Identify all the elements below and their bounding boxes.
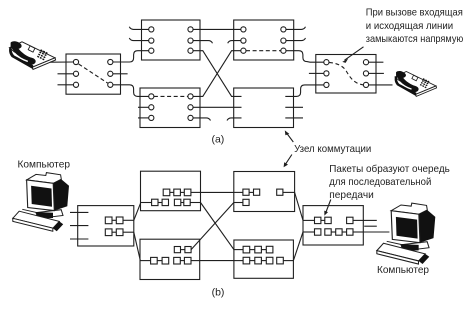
packet switch box M2b (top-right)	[234, 172, 295, 212]
svg-text:Компьютер: Компьютер	[18, 158, 71, 170]
svg-text:При вызове входящая: При вызове входящая	[366, 7, 463, 19]
phone front strip	[32, 58, 55, 70]
M2 left stub hook row2	[228, 41, 241, 44]
RB right stub row2	[369, 72, 384, 74]
M3 right stub hook row3	[193, 118, 210, 121]
trunk M1b row1 to M2b row1	[201, 191, 234, 193]
M2 circles	[241, 27, 246, 32]
keyboard right end black	[53, 221, 63, 231]
svg-text:для последовательной: для последовательной	[329, 176, 431, 188]
M2b row2 queue	[234, 202, 243, 204]
svg-text:и исходящая линии: и исходящая линии	[366, 20, 453, 32]
trunk diagonal M3b row1 to M2b row2	[191, 203, 234, 250]
LB left circles column	[73, 59, 78, 64]
M3b row1 queue	[174, 247, 180, 253]
phone base black	[9, 47, 33, 69]
svg-text:(b): (b)	[212, 286, 225, 298]
LBb row2 packets	[105, 229, 112, 236]
trunk diagonal M1b row2 to M4b row1	[201, 203, 234, 250]
M4b row2 queue	[234, 260, 243, 262]
M4 right tick row2	[285, 106, 303, 108]
trunk diagonal M2b to RBb row1	[295, 192, 303, 220]
annotation arrow (b) packets	[326, 200, 331, 213]
M1 right stub hook row2	[193, 41, 212, 44]
arrow to M2b (down)	[285, 155, 292, 165]
RBb row1 queue	[303, 219, 315, 221]
RB right stub row1	[369, 61, 384, 63]
LBb row1 packets	[105, 217, 112, 224]
RBb row2 queue	[303, 231, 315, 233]
LB closed crosspoint dashed	[79, 64, 108, 83]
phone handset	[11, 41, 36, 64]
M2 right stub hook row2	[286, 38, 306, 41]
packet box LBb (left)	[78, 206, 134, 246]
packet box RBb (right)	[303, 206, 363, 245]
M3b row2 queue	[140, 260, 151, 262]
svg-text:(a): (a)	[211, 133, 224, 145]
trunk M3b row2 to M4b row2	[200, 260, 234, 262]
keyboard front	[13, 218, 53, 231]
M3 left stub row2	[138, 106, 149, 108]
monitor right side black	[53, 179, 69, 210]
RBb output lines to computer C2	[363, 219, 377, 221]
M4 right tick row3	[285, 117, 303, 119]
svg-text:передачи: передачи	[329, 189, 374, 201]
svg-text:замыкаются напрямую: замыкаются напрямую	[366, 33, 464, 45]
M1 circles	[149, 27, 154, 32]
M2 right stub hook row1	[286, 27, 306, 30]
toll office box M2 (top-right)	[234, 20, 294, 60]
M1b row2 queue	[152, 199, 158, 205]
monitor stand black wedge	[36, 212, 53, 219]
toll office box M3 (bottom-left)	[140, 88, 200, 128]
toll office box M4 (bottom-right)	[234, 88, 294, 128]
RB closed crosspoint dashed S-curve	[329, 62, 363, 85]
wire phone1 to box LB row1	[50, 61, 73, 63]
wire RB row3 to phone2	[369, 84, 393, 86]
phone handset white gap	[14, 53, 28, 61]
pedestal left line	[22, 209, 36, 212]
M3 left stub row3	[138, 117, 149, 119]
telephone T1 (left)	[9, 41, 56, 69]
M1b row1 queue	[163, 189, 170, 196]
trunk diagonal M4b to RBb row2	[293, 232, 303, 261]
monitor top face	[27, 173, 62, 184]
phone body top face	[9, 42, 55, 67]
toll office box M1 (top-left)	[142, 20, 201, 60]
keyboard top	[13, 211, 60, 228]
trunk diagonal M3 row1 to M2 row3	[193, 51, 241, 97]
computer C1 ticks to LBb	[70, 211, 88, 213]
LB right stub row2	[113, 73, 128, 75]
LBb fan-out diagonals	[134, 203, 141, 220]
packet switch box M1b (top-left)	[141, 171, 201, 211]
computer C1 (left)	[13, 173, 69, 232]
RB right circles	[363, 60, 368, 65]
M3 circles	[149, 94, 154, 99]
M2b row1 queue	[234, 191, 243, 193]
wire LB row1 up to M1 row3	[113, 51, 149, 62]
screen black	[31, 186, 52, 207]
annotation arrow (a)	[345, 47, 364, 60]
wire M4 row1 up to RB row3	[285, 85, 324, 97]
wire LB row3 down to M3 row1	[113, 85, 149, 97]
LB left stub row3	[58, 84, 74, 86]
RB left stub row2	[309, 72, 324, 74]
trunk M1 row1 to M2 row1	[193, 28, 241, 30]
M3 closed crosspoint dashed row1	[154, 95, 188, 97]
packet switch box M3b (bottom-left)	[140, 239, 200, 279]
svg-text:Пакеты образуют очередь: Пакеты образуют очередь	[329, 163, 450, 175]
M1 left stub hook row1	[129, 27, 148, 30]
LB left stub row2	[58, 73, 74, 75]
trunk M3 row2 to M4 row2	[193, 106, 241, 108]
packet switch box M4b (bottom-right)	[234, 240, 294, 278]
computer C2 (right)	[377, 203, 435, 264]
phone cradle rect	[28, 46, 35, 52]
telephone T2 (right)	[395, 71, 437, 96]
switch box LB (left local office)	[66, 54, 121, 94]
pedestal	[36, 210, 63, 219]
M4 left tick row3 with hook	[227, 118, 242, 121]
trunk diagonal M1 row3 to M4	[193, 51, 241, 97]
arrow to M4 (up)	[286, 133, 293, 142]
wire M2 row3 down to RB row1	[286, 51, 324, 63]
phone keypad dots	[37, 49, 48, 60]
svg-text:Компьютер: Компьютер	[377, 264, 429, 276]
RB left circles	[324, 60, 329, 65]
svg-text:Узел коммутации: Узел коммутации	[294, 143, 371, 155]
monitor front frame	[27, 180, 55, 211]
LB right circles column	[108, 59, 113, 64]
M4b row1 queue	[234, 249, 243, 251]
M2 closed crosspoint dashed row3	[246, 50, 281, 52]
switch box RB (right local office)	[316, 55, 376, 94]
M1 left stub hook row2	[129, 38, 148, 41]
